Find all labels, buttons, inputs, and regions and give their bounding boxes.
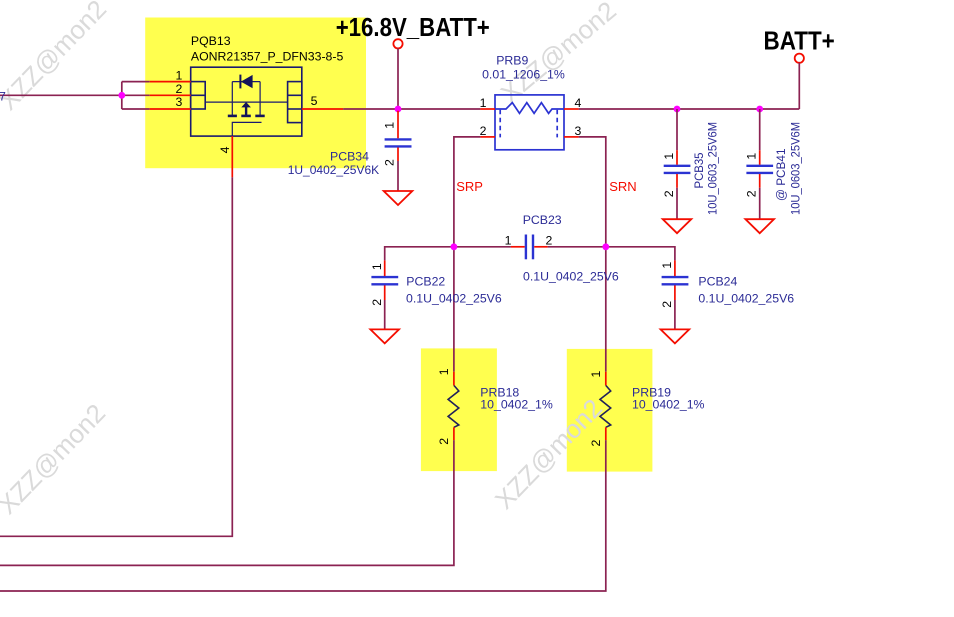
PRB19 pin 2 number bbox=[589, 440, 603, 447]
PCB34 pin 1 number bbox=[383, 122, 397, 129]
wire PRB18 pin2 down and left to edge bbox=[0, 440, 454, 565]
pin 3 number bbox=[175, 95, 182, 109]
highlight rect over PRB18 bbox=[421, 348, 497, 471]
ground PCB34 bbox=[384, 191, 413, 205]
PCB23 pin 1 number bbox=[505, 234, 512, 248]
wire SRP from PRB9 pin2 bbox=[454, 137, 481, 372]
pin 2 number bbox=[480, 124, 487, 138]
svg-text:4: 4 bbox=[575, 96, 582, 110]
svg-text:2: 2 bbox=[383, 159, 397, 166]
pin 1 number bbox=[480, 96, 487, 110]
junction dot SRP row bbox=[451, 243, 458, 250]
svg-text:1: 1 bbox=[370, 263, 384, 270]
wire PCB24 to ground bbox=[674, 300, 676, 329]
pin 3 number bbox=[575, 124, 582, 138]
pin 2 number bbox=[175, 82, 182, 96]
svg-text:4: 4 bbox=[218, 146, 232, 153]
ground PCB24 bbox=[661, 329, 690, 343]
PQB13 reference label bbox=[191, 34, 231, 48]
svg-text:AONR21357_P_DFN33-8-5: AONR21357_P_DFN33-8-5 bbox=[191, 50, 344, 64]
svg-text:5: 5 bbox=[311, 94, 318, 108]
svg-text:PCB24: PCB24 bbox=[698, 275, 737, 289]
svg-text:2: 2 bbox=[660, 301, 674, 308]
PCB34 reference label bbox=[330, 150, 369, 164]
PCB35 pin 2 stub bbox=[676, 174, 678, 188]
svg-text:SRP: SRP bbox=[456, 179, 483, 194]
pin 2 stub PQB13 bbox=[150, 94, 191, 96]
svg-text:2: 2 bbox=[662, 190, 676, 197]
wire rail to PCB35 bbox=[676, 109, 678, 150]
PRB18 value label bbox=[480, 398, 553, 412]
watermark top-center bbox=[495, 0, 622, 109]
svg-text:7: 7 bbox=[0, 90, 6, 104]
PCB23 pin 2 stub bbox=[534, 246, 547, 248]
wire main rail right segment bbox=[579, 108, 800, 110]
svg-text:1: 1 bbox=[660, 262, 674, 269]
svg-text:PCB34: PCB34 bbox=[330, 150, 369, 164]
wire fork row 2 bbox=[122, 94, 150, 96]
PRB19 pin 1 stub bbox=[605, 372, 607, 386]
highlight rect over PRB19 bbox=[567, 349, 653, 472]
wire terminal drop to rail bbox=[397, 48, 399, 109]
svg-text:1: 1 bbox=[480, 96, 487, 110]
capacitor PCB34 bbox=[385, 139, 412, 146]
power terminal BATT+ bbox=[764, 25, 835, 63]
PCB23 pin 2 number bbox=[546, 234, 553, 248]
svg-text:BATT+: BATT+ bbox=[764, 25, 835, 55]
PCB41 pin 1 number bbox=[745, 153, 759, 160]
wire from left edge to fork junction bbox=[0, 94, 122, 96]
power terminal +16.8V_BATT+ bbox=[336, 12, 490, 48]
svg-text:1: 1 bbox=[383, 122, 397, 129]
pin 5 number bbox=[311, 94, 318, 108]
svg-text:PCB23: PCB23 bbox=[523, 213, 562, 227]
svg-text:2: 2 bbox=[589, 440, 603, 447]
svg-text:2: 2 bbox=[175, 82, 182, 96]
svg-text:@ PCB41: @ PCB41 bbox=[774, 148, 788, 201]
PRB18 reference label bbox=[480, 386, 519, 400]
PCB22 pin 2 number bbox=[370, 299, 384, 306]
watermark bottom-center bbox=[489, 393, 608, 515]
PCB24 pin 2 stub bbox=[674, 285, 676, 300]
pin 4 stub PRB9 bbox=[564, 108, 579, 110]
PCB23 pin 1 stub bbox=[511, 246, 525, 248]
junction dot rail at PCB41 bbox=[756, 106, 763, 113]
capacitor PCB41 bbox=[746, 166, 773, 173]
svg-text:1: 1 bbox=[589, 371, 603, 378]
PCB22 reference label bbox=[406, 275, 445, 289]
resistor PRB19 bbox=[600, 385, 611, 427]
PRB18 pin 2 number bbox=[437, 438, 451, 445]
svg-text:PCB35: PCB35 bbox=[692, 152, 706, 188]
PRB18 pin 2 stub bbox=[453, 427, 455, 440]
wire PRB19 pin2 down and left to edge bbox=[0, 440, 606, 591]
svg-text:0.01_1206_1%: 0.01_1206_1% bbox=[482, 68, 565, 82]
PCB34 value label bbox=[288, 163, 380, 177]
net label SRP bbox=[456, 179, 483, 194]
transistor PQB13 AONR21357_P_DFN33-8-5 bbox=[191, 67, 302, 136]
wire PCB34 to ground bbox=[397, 161, 399, 191]
PCB41 reference label (rotated) bbox=[774, 148, 788, 201]
pin 1 number bbox=[175, 68, 182, 82]
net label SRN bbox=[609, 179, 636, 194]
wire fork row 3 bbox=[122, 108, 150, 110]
resistor PRB9 (current sense) bbox=[495, 95, 564, 150]
highlight rect over PQB13 bbox=[145, 18, 366, 169]
PCB41 pin 1 stub bbox=[759, 150, 761, 165]
junction dot rail at PCB35 bbox=[674, 106, 681, 113]
pin 3 stub PQB13 bbox=[150, 108, 191, 110]
svg-text:10_0402_1%: 10_0402_1% bbox=[480, 398, 553, 412]
pin 4 number bbox=[218, 146, 232, 153]
capacitor PCB23 bbox=[526, 235, 533, 260]
svg-text:1: 1 bbox=[175, 68, 182, 82]
wire PCB41 to ground bbox=[759, 188, 761, 219]
PCB22 pin 1 stub bbox=[384, 260, 386, 276]
PCB35 value label (rotated) bbox=[706, 122, 720, 215]
wire BATT+ drop to rail bbox=[798, 63, 800, 109]
svg-text:1: 1 bbox=[745, 153, 759, 160]
svg-text:PCB22: PCB22 bbox=[406, 275, 445, 289]
junction dot SRN row bbox=[602, 243, 609, 250]
capacitor PCB24 bbox=[662, 277, 689, 284]
net label 7 (cut at left edge) bbox=[0, 90, 6, 104]
PCB23 value label bbox=[523, 270, 619, 284]
svg-text:10U_0603_25V6M: 10U_0603_25V6M bbox=[789, 122, 803, 215]
capacitor PCB22 bbox=[371, 277, 398, 284]
PCB35 pin 1 number bbox=[662, 153, 676, 160]
svg-text:10_0402_1%: 10_0402_1% bbox=[632, 398, 705, 412]
svg-text:10U_0603_25V6M: 10U_0603_25V6M bbox=[706, 122, 720, 215]
PRB18 pin 1 number bbox=[437, 368, 451, 375]
pin 2 stub PRB9 bbox=[480, 136, 495, 138]
svg-text:2: 2 bbox=[546, 234, 553, 248]
svg-text:2: 2 bbox=[480, 124, 487, 138]
pin 1 stub PRB9 bbox=[480, 108, 495, 110]
capacitor PCB35 bbox=[664, 166, 691, 173]
PCB35 pin 1 stub bbox=[676, 150, 678, 165]
PCB34 pin 2 stub bbox=[397, 148, 399, 162]
PCB24 pin 1 stub bbox=[674, 260, 676, 276]
svg-text:2: 2 bbox=[437, 438, 451, 445]
watermark top-left bbox=[0, 0, 112, 116]
pin 3 stub PRB9 bbox=[564, 136, 579, 138]
PQB13 value label bbox=[191, 50, 344, 64]
svg-text:+16.8V_BATT+: +16.8V_BATT+ bbox=[336, 12, 490, 42]
PCB35 pin 2 number bbox=[662, 190, 676, 197]
PCB35 reference label (rotated) bbox=[692, 152, 706, 188]
PCB24 reference label bbox=[698, 275, 737, 289]
PCB34 pin 1 stub bbox=[397, 111, 399, 139]
PCB41 pin 2 number bbox=[745, 190, 759, 197]
PRB9 reference label bbox=[496, 54, 528, 68]
PCB22 pin 1 number bbox=[370, 263, 384, 270]
pin 4 number bbox=[575, 96, 582, 110]
svg-text:1: 1 bbox=[437, 368, 451, 375]
watermark bottom-left bbox=[0, 398, 111, 520]
svg-text:2: 2 bbox=[370, 299, 384, 306]
svg-text:SRN: SRN bbox=[609, 179, 636, 194]
svg-text:PRB9: PRB9 bbox=[496, 54, 528, 68]
PCB41 value label (rotated) bbox=[789, 122, 803, 215]
wire PQB13 pin4 down and left to edge bbox=[0, 177, 232, 536]
wire fork row 1 bbox=[122, 81, 150, 83]
ground PCB22 bbox=[370, 329, 399, 343]
PCB41 pin 2 stub bbox=[759, 174, 761, 188]
PCB23 reference label bbox=[523, 213, 562, 227]
PRB9 value label bbox=[482, 68, 565, 82]
PRB19 value label bbox=[632, 398, 705, 412]
pin 5 stub PQB13 bbox=[302, 108, 343, 110]
ground PCB41 bbox=[745, 219, 774, 233]
wire row joining PCB22 PCB23 PCB24 left part bbox=[385, 247, 511, 261]
svg-text:1U_0402_25V6K: 1U_0402_25V6K bbox=[288, 163, 380, 177]
resistor PRB18 bbox=[448, 385, 459, 427]
PCB24 pin 1 number bbox=[660, 262, 674, 269]
PRB19 pin 2 stub bbox=[605, 427, 607, 440]
pin 4 stub PQB13 bbox=[231, 136, 233, 177]
svg-text:0.1U_0402_25V6: 0.1U_0402_25V6 bbox=[523, 270, 619, 284]
svg-text:2: 2 bbox=[745, 190, 759, 197]
PCB22 value label bbox=[406, 292, 502, 306]
svg-text:1: 1 bbox=[662, 153, 676, 160]
wire row right part bbox=[548, 247, 675, 261]
PCB34 pin 2 number bbox=[383, 159, 397, 166]
wire SRN from PRB9 pin3 bbox=[579, 137, 606, 372]
PRB19 pin 1 number bbox=[589, 371, 603, 378]
PRB19 reference label bbox=[632, 386, 671, 400]
pin 1 stub PQB13 bbox=[150, 81, 191, 83]
svg-text:1: 1 bbox=[505, 234, 512, 248]
svg-text:0.1U_0402_25V6: 0.1U_0402_25V6 bbox=[698, 292, 794, 306]
svg-text:3: 3 bbox=[575, 124, 582, 138]
svg-text:0.1U_0402_25V6: 0.1U_0402_25V6 bbox=[406, 292, 502, 306]
wire PCB22 to ground bbox=[384, 300, 386, 329]
wire fork vertical bbox=[121, 82, 123, 109]
junction dot at fork bbox=[118, 92, 125, 99]
PCB24 value label bbox=[698, 292, 794, 306]
ground PCB35 bbox=[663, 219, 692, 233]
wire main rail left segment bbox=[343, 108, 480, 110]
PRB18 pin 1 stub bbox=[453, 372, 455, 386]
wire rail to PCB41 bbox=[759, 109, 761, 150]
svg-text:3: 3 bbox=[175, 95, 182, 109]
PCB22 pin 2 stub bbox=[384, 285, 386, 300]
junction dot rail at PCB34 bbox=[395, 106, 402, 113]
PCB24 pin 2 number bbox=[660, 301, 674, 308]
wire PCB35 to ground bbox=[676, 188, 678, 219]
svg-text:PQB13: PQB13 bbox=[191, 34, 231, 48]
